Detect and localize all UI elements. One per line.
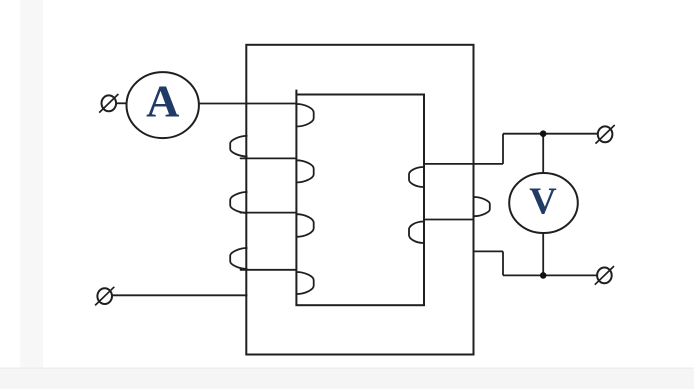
wire step to bottom-right bbox=[502, 251, 504, 275]
terminal X1 (top left) bbox=[99, 94, 118, 113]
svg-text:A: A bbox=[146, 75, 179, 126]
wire top-right horizontal bbox=[503, 133, 598, 135]
wire voltmeter bottom to junction bbox=[542, 233, 544, 276]
wire junction to voltmeter top bbox=[542, 134, 544, 174]
secondary winding loop 2 (left bump) bbox=[409, 222, 424, 244]
ammeter A bbox=[127, 72, 199, 138]
primary winding loop 3 (left bump) bbox=[230, 248, 247, 269]
junction dot (top) bbox=[540, 130, 547, 137]
terminal X2 (bottom left) bbox=[95, 287, 114, 306]
terminal X4 (bottom right) bbox=[595, 266, 614, 285]
primary winding loop 3 (right bump) bbox=[296, 214, 313, 237]
primary winding loop 1 (right bump) bbox=[296, 104, 313, 127]
transformer core inner rectangle bbox=[296, 90, 424, 306]
wire X1 to ammeter bbox=[116, 102, 127, 104]
wire X2 to core bbox=[112, 294, 247, 296]
wire step to top-right bbox=[502, 134, 504, 164]
primary winding loop 2 (right bump) bbox=[296, 160, 313, 182]
voltmeter V bbox=[509, 173, 578, 233]
secondary winding wire 2 bbox=[424, 219, 474, 221]
primary winding wire 2 bbox=[240, 157, 297, 159]
secondary winding loop 1 (left bump) bbox=[409, 167, 424, 187]
wire ammeter to primary winding bbox=[199, 103, 297, 105]
secondary winding loop (right bump on outer limb) bbox=[474, 197, 490, 216]
transformer core outer rectangle bbox=[246, 45, 473, 355]
primary winding wire 4 bbox=[240, 269, 297, 271]
svg-text:V: V bbox=[529, 180, 557, 222]
secondary winding wire 3 bbox=[474, 250, 503, 252]
terminal X3 (top right) bbox=[596, 125, 615, 144]
primary winding loop 1 (left bump) bbox=[230, 136, 247, 157]
junction dot (bottom) bbox=[540, 272, 547, 279]
primary winding loop 4 (right bump) bbox=[296, 272, 313, 294]
primary winding loop 2 (left bump) bbox=[230, 192, 247, 213]
wire bottom-right horizontal bbox=[503, 274, 597, 276]
secondary winding wire 1 bbox=[424, 163, 503, 165]
primary winding wire 3 bbox=[240, 212, 297, 214]
